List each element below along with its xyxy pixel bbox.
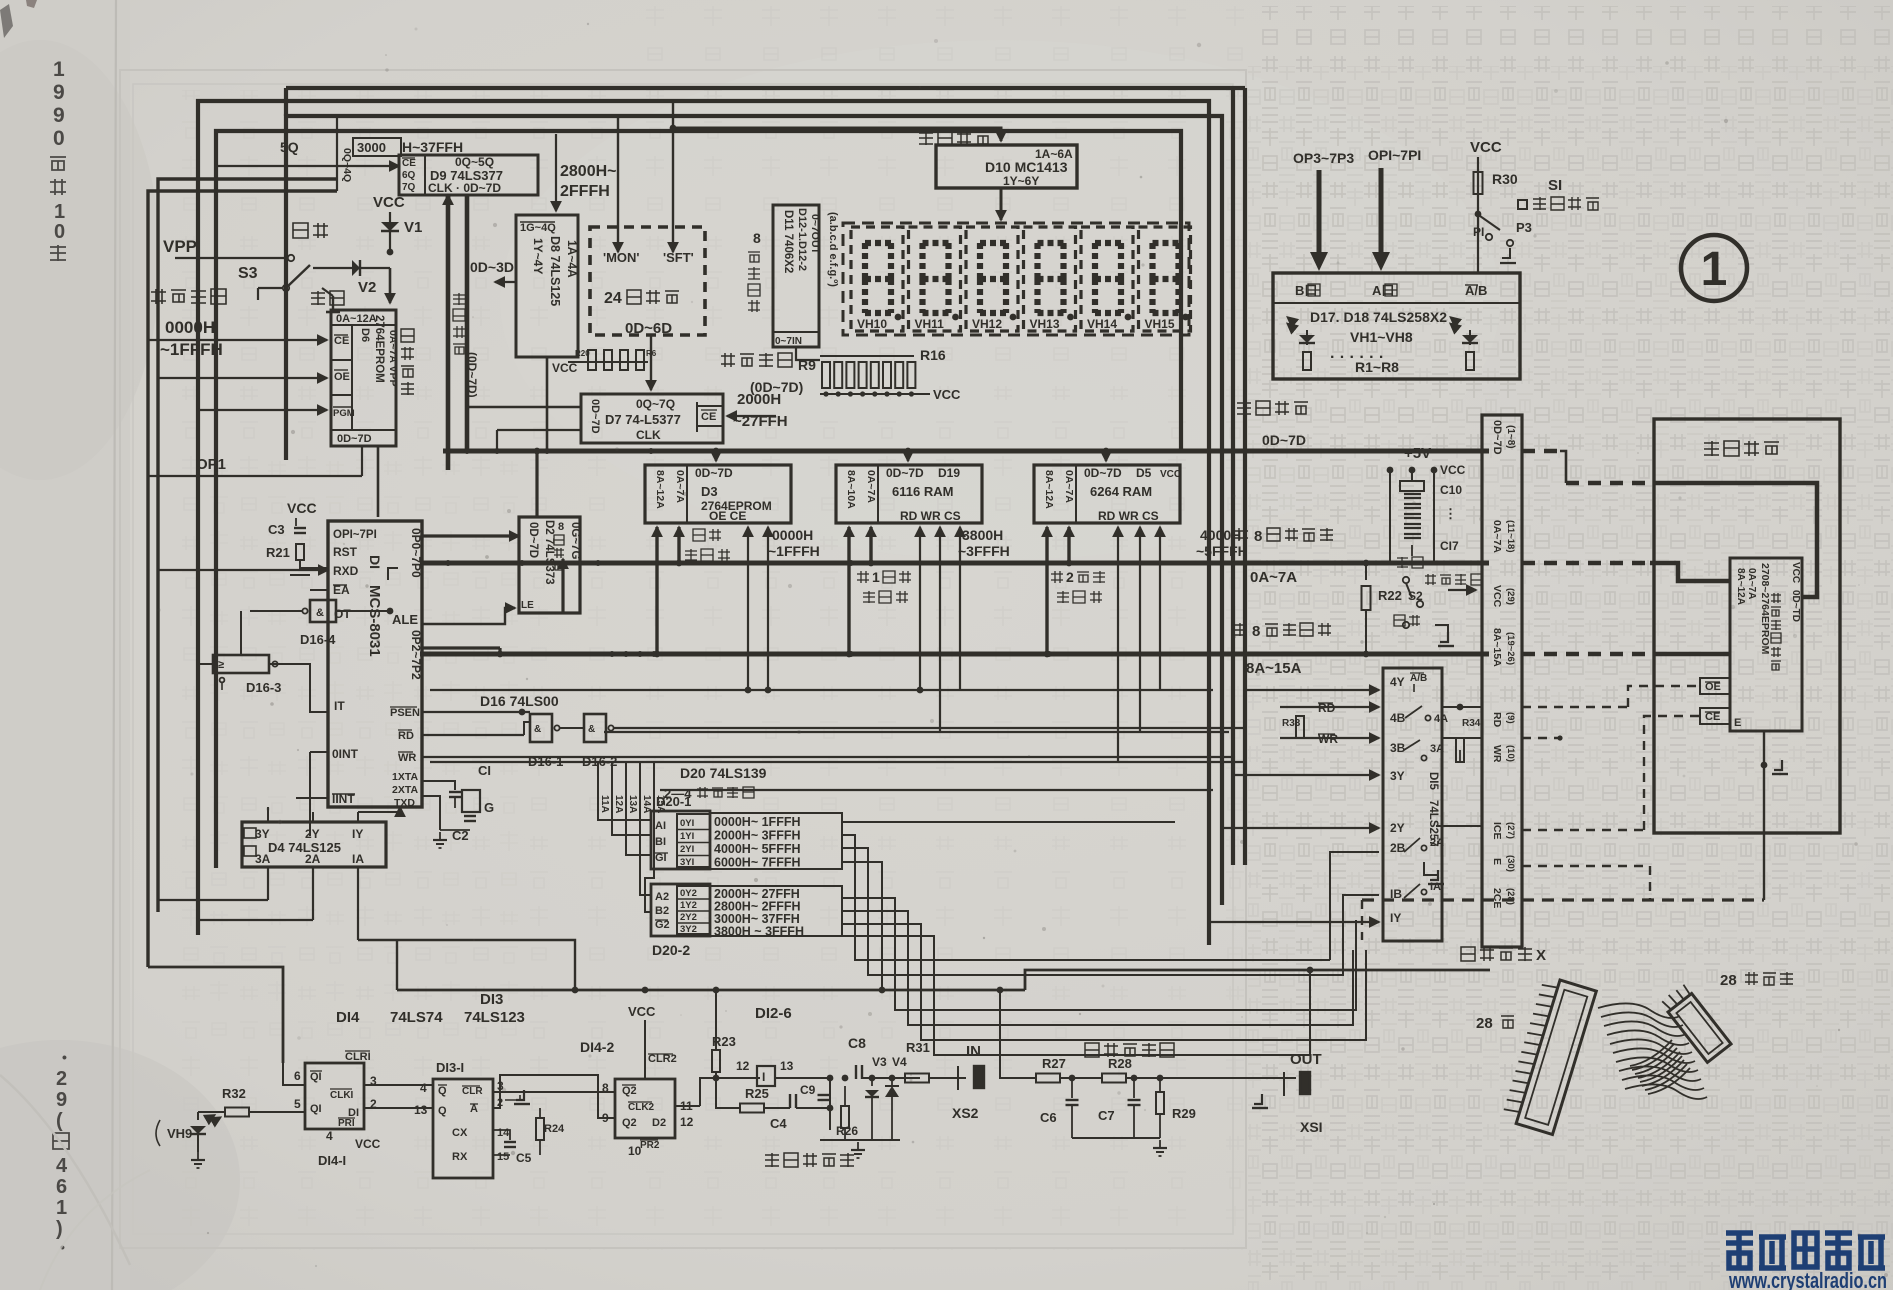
label chang-tai (normal)	[311, 291, 325, 305]
svg-text:~1FFFH: ~1FFFH	[768, 543, 820, 559]
D13-1 to D14-2 wires	[493, 1091, 615, 1093]
register D7 74LS377 box	[581, 394, 723, 443]
svg-text:DΙ4-2: DΙ4-2	[580, 1039, 614, 1055]
buffer D4 74LS125 box	[242, 822, 386, 867]
driver D10 MC1413 box	[936, 145, 1077, 188]
label segment-select signal	[721, 353, 735, 367]
svg-text:X: X	[1536, 947, 1546, 964]
svg-text:D16-4: D16-4	[300, 632, 336, 647]
svg-text:ΙA: ΙA	[352, 852, 364, 866]
label write-tape circuit	[1085, 1043, 1099, 1057]
svg-text:1Y~4Y: 1Y~4Y	[531, 238, 545, 274]
label bit-select signal	[919, 131, 933, 145]
svg-text:VPP: VPP	[163, 237, 197, 256]
svg-text:R27: R27	[1042, 1056, 1066, 1071]
svg-text:≥: ≥	[218, 659, 224, 671]
gate D16-4	[310, 600, 336, 622]
svg-text:2764EPROM: 2764EPROM	[373, 315, 385, 383]
svg-text:OPΙ~7PΙ: OPΙ~7PΙ	[333, 529, 377, 541]
wire right vertical bus A	[1231, 88, 1235, 865]
svg-text:0P0~7P0: 0P0~7P0	[409, 528, 423, 578]
boxed 3000H~37FFH	[353, 138, 401, 156]
svg-text:OP1: OP1	[196, 456, 226, 473]
svg-text:8A~12A: 8A~12A	[1735, 568, 1746, 605]
bleed-through text columns middle	[150, 90, 1250, 1250]
svg-text:D12-1.D12-2: D12-1.D12-2	[796, 208, 808, 271]
bleed-through text columns right	[1248, 6, 1890, 1284]
svg-text:0~7OUT: 0~7OUT	[809, 214, 821, 255]
svg-text:R33: R33	[1282, 718, 1301, 729]
svg-text:CΙ7: CΙ7	[1440, 539, 1459, 553]
svg-text:V1: V1	[404, 219, 422, 236]
svg-text:74LS123: 74LS123	[464, 1009, 525, 1026]
diode V2	[313, 267, 390, 269]
svg-text:0000H: 0000H	[165, 318, 215, 337]
svg-text:8: 8	[558, 521, 564, 533]
dashed low addr into app box	[1522, 561, 1650, 566]
svg-text:•: •	[62, 1049, 67, 1065]
svg-text:1: 1	[872, 569, 880, 585]
svg-text:0A~7A: 0A~7A	[674, 470, 686, 503]
svg-text:RD WR CS: RD WR CS	[900, 509, 961, 523]
svg-text:5: 5	[294, 1097, 301, 1111]
D15/slot connecting wires	[1442, 706, 1482, 708]
svg-text:H~37FFH: H~37FFH	[402, 139, 463, 155]
svg-text:DΙ4-Ι: DΙ4-Ι	[318, 1153, 346, 1168]
svg-text:2800H~: 2800H~	[560, 163, 617, 180]
svg-text:VCC: VCC	[933, 387, 961, 402]
svg-text:4B: 4B	[1390, 711, 1406, 725]
svg-text:3000: 3000	[357, 140, 386, 155]
svg-text:R24: R24	[544, 1123, 565, 1135]
connector 28-pin (left)	[1501, 975, 1596, 1134]
svg-text:6: 6	[56, 1176, 67, 1198]
C5 R24	[493, 1130, 510, 1140]
svg-text:VCC: VCC	[552, 361, 578, 375]
svg-text:0D~7D: 0D~7D	[695, 466, 733, 480]
svg-text:10: 10	[628, 1144, 642, 1158]
D15 left arrows	[1245, 689, 1379, 691]
svg-text:D8 74LS125: D8 74LS125	[548, 236, 562, 306]
svg-text:GΙ: GΙ	[655, 852, 667, 864]
svg-text:~27FFH: ~27FFH	[733, 413, 788, 430]
D20 output staircase wires	[842, 821, 1175, 823]
display VH14	[1081, 227, 1133, 331]
svg-text:V3: V3	[872, 1055, 887, 1069]
svg-text:Q2: Q2	[622, 1117, 637, 1129]
svg-text:1: 1	[53, 58, 65, 81]
D2 latch bus verticals	[535, 451, 538, 517]
svg-text:QΙ: QΙ	[310, 1103, 322, 1115]
svg-text:A2: A2	[655, 891, 669, 903]
label read-tape circuit	[765, 1153, 779, 1167]
flipflop D14-1 box	[305, 1063, 364, 1129]
svg-text:RD: RD	[398, 730, 414, 742]
svg-text:0: 0	[53, 127, 65, 150]
CE wiring	[1522, 829, 1644, 831]
D6 bottom wire down	[377, 446, 380, 517]
svg-text:D10 MC1413: D10 MC1413	[985, 159, 1068, 175]
svg-text:VCC: VCC	[373, 194, 405, 211]
CPU left wires	[158, 569, 328, 571]
RAM D5 6264 box	[1034, 465, 1180, 523]
keyboard pull-up resistors R20..	[568, 361, 648, 363]
svg-text:RD: RD	[1491, 712, 1503, 728]
svg-text:R20: R20	[575, 349, 590, 358]
paper creases	[0, 1075, 130, 1265]
svg-text:0Q~4Q: 0Q~4Q	[341, 148, 353, 182]
wire into D10	[673, 128, 1001, 141]
inverter D11 7406X2 box	[773, 205, 819, 347]
svg-text:12A: 12A	[613, 795, 624, 813]
svg-text:BΙ: BΙ	[655, 836, 666, 848]
main data bus 0D~7D	[443, 449, 1489, 454]
svg-text:OE CE: OE CE	[709, 509, 746, 523]
svg-text:4000H~ 5FFFH: 4000H~ 5FFFH	[714, 842, 801, 856]
mux D15 74LS257 box	[1383, 668, 1442, 941]
svg-text:ALE: ALE	[392, 612, 418, 627]
svg-text:14: 14	[497, 1127, 510, 1139]
svg-text:6: 6	[294, 1069, 301, 1083]
svg-text:VH14: VH14	[1087, 317, 1117, 331]
R29	[1157, 1075, 1164, 1082]
OE CE notches	[1700, 678, 1730, 694]
svg-text:8: 8	[1254, 528, 1262, 545]
svg-text:(19~26): (19~26)	[1505, 632, 1516, 665]
wire 2000H~27FFH into D7 CE	[727, 415, 776, 417]
svg-text:3Y2: 3Y2	[680, 924, 697, 935]
display VH11	[909, 227, 961, 331]
svg-text:2YΙ: 2YΙ	[680, 844, 694, 855]
svg-text:12: 12	[736, 1059, 750, 1073]
svg-text:(1~8): (1~8)	[1505, 425, 1516, 449]
long control wires mid band	[430, 689, 1213, 691]
svg-text:6Q: 6Q	[402, 170, 416, 181]
svg-text:0D~7D: 0D~7D	[1262, 432, 1306, 448]
junction dots	[445, 448, 451, 454]
thick arrow OP1	[1379, 168, 1384, 252]
RAM D19 6116 box	[836, 465, 982, 523]
svg-text:CX: CX	[452, 1127, 468, 1139]
svg-text:R21: R21	[266, 545, 290, 560]
svg-text:D16-3: D16-3	[246, 680, 281, 695]
svg-text:Q2: Q2	[622, 1085, 637, 1097]
wire D11 to resistor bank	[796, 347, 820, 360]
socket bottom wire with ground	[1763, 731, 1765, 900]
svg-text:R26: R26	[836, 1124, 858, 1138]
svg-text:TXD: TXD	[394, 797, 415, 809]
svg-text:2A: 2A	[305, 852, 321, 866]
svg-text:8A~12A: 8A~12A	[1043, 470, 1055, 509]
wires into D9	[216, 165, 399, 167]
D20 input feeders	[597, 762, 599, 792]
svg-text:74LS74: 74LS74	[390, 1009, 443, 1026]
svg-text:C5: C5	[516, 1151, 532, 1165]
svg-text:RXD: RXD	[333, 564, 359, 578]
svg-text:PR2: PR2	[640, 1140, 660, 1151]
svg-text:0A~7A: 0A~7A	[1250, 569, 1297, 586]
svg-text:DΙ3: DΙ3	[480, 991, 503, 1008]
svg-text:2708~2764EPROM: 2708~2764EPROM	[1759, 563, 1771, 655]
svg-text:B2: B2	[655, 905, 669, 917]
wire loop 3	[216, 131, 1181, 868]
svg-text:OP3~7P3: OP3~7P3	[1293, 150, 1354, 166]
svg-text:R34: R34	[1462, 718, 1481, 729]
svg-text:MCS-8031: MCS-8031	[366, 585, 383, 657]
svg-text:8A~12A: 8A~12A	[654, 470, 666, 509]
svg-text:DΙ3-Ι: DΙ3-Ι	[436, 1060, 464, 1075]
svg-text:VCC: VCC	[355, 1137, 381, 1151]
address taps from buses	[655, 527, 658, 654]
dashed WR stub	[1522, 737, 1560, 739]
svg-text:8A~15A: 8A~15A	[1246, 660, 1302, 677]
svg-text:4: 4	[326, 1129, 333, 1143]
svg-text:CLK2: CLK2	[628, 1102, 655, 1113]
svg-text:2000H~ 3FFFH: 2000H~ 3FFFH	[714, 829, 801, 843]
svg-text:&: &	[534, 724, 541, 735]
svg-text:XS2: XS2	[952, 1105, 979, 1121]
svg-text:PSEN: PSEN	[390, 707, 420, 719]
svg-text:0INT: 0INT	[332, 747, 359, 761]
svg-text:VCC: VCC	[287, 500, 317, 516]
wire outer loop top	[198, 101, 1209, 945]
wire loop 2	[286, 116, 1222, 905]
decoder D20-2	[651, 884, 710, 936]
svg-text:D3: D3	[701, 484, 718, 499]
svg-text:DΙ2-6: DΙ2-6	[755, 1005, 792, 1022]
LED left in box	[1306, 330, 1308, 345]
label low-8-address-line	[1235, 528, 1248, 541]
svg-text:VH1~VH8: VH1~VH8	[1350, 329, 1413, 345]
EA tie bracket	[388, 568, 398, 580]
svg-text:0Q~7Q: 0Q~7Q	[636, 397, 675, 411]
wires into D6 CE/OE/PGM	[148, 339, 327, 341]
svg-text:P3: P3	[1516, 220, 1532, 235]
0INT 1INT wires	[310, 751, 328, 753]
svg-text:): )	[56, 1218, 63, 1240]
wire loop 4 left verticals	[158, 179, 337, 912]
svg-text:3Y: 3Y	[1390, 769, 1405, 783]
six 7-segment displays VH10-VH15	[843, 223, 1189, 335]
svg-text:R22: R22	[1378, 588, 1402, 603]
svg-text:1XTA: 1XTA	[392, 771, 418, 783]
svg-text:(a.b.c.d e.f.g.º): (a.b.c.d e.f.g.º)	[827, 212, 839, 287]
R22 and emulation switch S2	[1362, 586, 1371, 610]
svg-text:VCC: VCC	[628, 1004, 656, 1019]
decoder D20-1	[651, 811, 710, 869]
svg-text:LE: LE	[521, 600, 534, 611]
D4 wires up	[267, 807, 269, 822]
svg-text:(28): (28)	[1505, 888, 1516, 905]
svg-text:C6: C6	[1040, 1110, 1057, 1125]
svg-text:12: 12	[680, 1115, 694, 1129]
bottom dashed bus	[1362, 898, 1764, 901]
svg-text:CLRΙ: CLRΙ	[345, 1051, 371, 1063]
control wires from below into memories	[747, 527, 749, 690]
svg-text:R31: R31	[906, 1040, 930, 1055]
low address bus 0A~7A	[420, 561, 1489, 566]
page fold line	[112, 0, 116, 1290]
svg-text:8: 8	[1252, 623, 1260, 640]
svg-text:⋮: ⋮	[1444, 506, 1457, 521]
svg-text:0G~7G: 0G~7G	[569, 522, 581, 559]
svg-text:A: A	[470, 1103, 478, 1115]
svg-text:Q: Q	[438, 1105, 447, 1117]
data bus taps into memories	[713, 448, 720, 455]
svg-text:R30: R30	[1492, 171, 1518, 187]
svg-text:6000H~ 7FFFH: 6000H~ 7FFFH	[714, 856, 801, 870]
svg-text:R29: R29	[1172, 1106, 1196, 1121]
dashed high addr into app box	[1522, 652, 1664, 657]
svg-text:~1FFFH: ~1FFFH	[160, 340, 223, 359]
svg-text:CΙ: CΙ	[478, 763, 491, 778]
svg-text:VCC: VCC	[1470, 139, 1502, 156]
svg-text:S3: S3	[238, 265, 258, 282]
svg-text:0D~7D: 0D~7D	[589, 399, 601, 434]
wire outermost loop y88	[286, 86, 1233, 90]
svg-text:E: E	[1491, 858, 1503, 865]
svg-text:D17. D18 74LS258X2: D17. D18 74LS258X2	[1310, 309, 1447, 325]
high address bus 8A~15A	[420, 652, 1489, 657]
svg-text:13: 13	[780, 1059, 794, 1073]
svg-text:CE: CE	[701, 411, 716, 423]
label application system	[1704, 441, 1719, 456]
svg-text:CE: CE	[1705, 711, 1720, 723]
D20 input wires	[598, 790, 651, 820]
svg-text:D20 74LS139: D20 74LS139	[680, 765, 767, 781]
ribbon cable left	[1598, 1003, 1680, 1018]
svg-text:D16 74LS00: D16 74LS00	[480, 693, 559, 709]
mux D17 D18 74LS258 box	[1273, 273, 1520, 379]
svg-text:SΙ: SΙ	[1548, 177, 1562, 194]
svg-text:15: 15	[497, 1151, 509, 1163]
D7 left wires	[467, 406, 581, 409]
svg-text:~3FFFH: ~3FFFH	[958, 543, 1010, 559]
svg-text:13: 13	[414, 1103, 428, 1117]
svg-text:CLKΙ: CLKΙ	[330, 1090, 354, 1101]
svg-text:C4: C4	[770, 1116, 787, 1131]
svg-text:4Y: 4Y	[1390, 675, 1405, 689]
flipflop D14-2 box	[615, 1079, 675, 1138]
svg-text:D5: D5	[1136, 466, 1152, 480]
LED right in box	[1469, 330, 1471, 345]
circled 1 figure number	[1681, 235, 1747, 301]
svg-text:C10: C10	[1440, 483, 1462, 497]
svg-text:CLK: CLK	[636, 428, 661, 442]
connector 28-pin plug (right)	[1660, 983, 1731, 1062]
svg-text:(10): (10)	[1505, 745, 1516, 762]
svg-text:(9): (9)	[1505, 712, 1516, 724]
corner marks top-left	[0, 4, 13, 38]
wire D10 to displays	[1000, 188, 1003, 220]
label program memory socket (vertical)	[1771, 593, 1781, 603]
svg-text:3B: 3B	[1390, 741, 1406, 755]
svg-text:C2: C2	[452, 828, 469, 843]
svg-text:0D~TD: 0D~TD	[1790, 590, 1801, 622]
svg-text:1: 1	[56, 1197, 67, 1219]
wire VPP to EPROM socket	[387, 249, 394, 256]
EPROM D3 2764 box	[645, 465, 791, 523]
svg-text:2CE: 2CE	[1491, 888, 1503, 908]
svg-text:RD WR CS: RD WR CS	[1098, 509, 1159, 523]
svg-text:(27): (27)	[1505, 822, 1516, 839]
svg-text:V4: V4	[892, 1055, 907, 1069]
svg-text:~5FFFH: ~5FFFH	[1196, 543, 1248, 559]
svg-text:4A: 4A	[1434, 713, 1448, 725]
svg-text:9: 9	[53, 104, 65, 127]
keyboard to D7 wire 0D~6D	[650, 335, 652, 390]
svg-text:1: 1	[54, 201, 65, 223]
register D9 74LS377 box	[399, 155, 538, 195]
svg-text:0P2~7P2: 0P2~7P2	[409, 630, 423, 680]
ALE wire to D2	[422, 608, 515, 624]
svg-text:1G~4Q: 1G~4Q	[520, 222, 556, 234]
svg-text:DΙ5: DΙ5	[1427, 772, 1439, 791]
svg-text:3Y: 3Y	[255, 827, 270, 841]
EPROM programming socket D6 box	[331, 310, 396, 446]
svg-text:WR: WR	[1491, 745, 1503, 763]
svg-text:R1~R8: R1~R8	[1355, 359, 1399, 375]
svg-text:CLR: CLR	[462, 1086, 483, 1097]
svg-text:0YΙ: 0YΙ	[680, 818, 694, 829]
long wires entering bottom section	[397, 989, 1025, 992]
svg-text:0D~7D: 0D~7D	[886, 466, 924, 480]
svg-text:0D~3D: 0D~3D	[470, 259, 514, 275]
svg-text:VH10: VH10	[857, 317, 887, 331]
svg-text:3A: 3A	[1430, 743, 1444, 755]
svg-text:IN: IN	[966, 1043, 981, 1060]
R26 V3 V4	[841, 1106, 849, 1128]
svg-text:3A: 3A	[255, 852, 271, 866]
svg-text:OPI~7PΙ: OPI~7PΙ	[1368, 147, 1421, 163]
label emulation slot X	[1461, 947, 1475, 961]
svg-text:24: 24	[604, 290, 622, 307]
svg-text:28: 28	[1720, 972, 1737, 989]
svg-text:RX: RX	[452, 1151, 468, 1163]
svg-text:8A~15A: 8A~15A	[1491, 628, 1503, 667]
svg-text:R25: R25	[745, 1086, 769, 1101]
svg-text:D11 7406X2: D11 7406X2	[782, 210, 794, 273]
svg-text:C3: C3	[268, 522, 285, 537]
svg-text:2000H: 2000H	[737, 391, 781, 408]
svg-text:D19: D19	[938, 466, 960, 480]
svg-text:2Y: 2Y	[305, 827, 320, 841]
label bian-cheng-kai-guan (program switch)	[151, 289, 166, 304]
svg-text:OE: OE	[1705, 681, 1721, 693]
svg-text:C9: C9	[800, 1083, 816, 1097]
svg-text:1YΙ: 1YΙ	[680, 831, 694, 842]
svg-text:6264 RAM: 6264 RAM	[1090, 484, 1152, 499]
svg-text:0: 0	[54, 221, 65, 243]
svg-text:RST: RST	[333, 545, 358, 559]
svg-text:DΙ: DΙ	[367, 555, 383, 569]
dashed data bus into app box	[1522, 449, 1560, 454]
svg-text:0000H: 0000H	[772, 527, 813, 543]
E / 2CE dashed wiring	[1522, 865, 1650, 867]
svg-text:9: 9	[56, 1089, 67, 1111]
svg-text:5Q: 5Q	[280, 139, 299, 155]
D14-1 top wire	[283, 1063, 305, 1085]
normal-contact bar	[332, 296, 334, 312]
svg-text:ΙCE: ΙCE	[1491, 822, 1503, 840]
svg-text:2Y2: 2Y2	[680, 912, 697, 923]
svg-text:2B: 2B	[1390, 841, 1406, 855]
vertical data bus label	[453, 293, 465, 305]
svg-text:8A~10A: 8A~10A	[845, 470, 857, 509]
svg-text:DΙ4: DΙ4	[336, 1009, 360, 1026]
svg-text:www.crystalradio.cn: www.crystalradio.cn	[1728, 1268, 1887, 1290]
svg-text:+5V: +5V	[1404, 445, 1431, 462]
